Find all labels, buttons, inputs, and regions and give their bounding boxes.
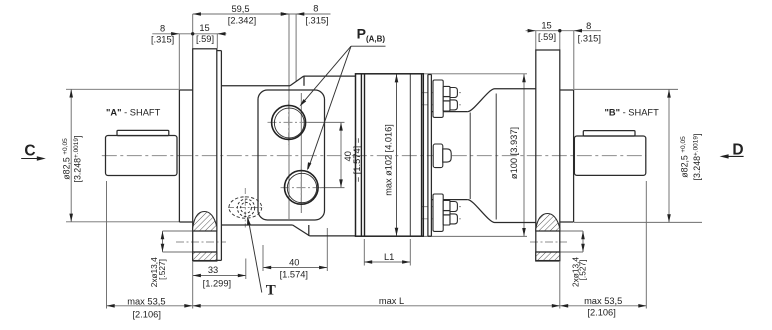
svg-text:[.59]: [.59] — [538, 32, 556, 42]
svg-text:15: 15 — [199, 23, 209, 33]
svg-text:T: T — [266, 283, 276, 299]
svg-text:max 53,5: max 53,5 — [127, 297, 165, 307]
svg-text:8: 8 — [586, 21, 591, 31]
svg-text:[2.106]: [2.106] — [587, 307, 615, 317]
svg-text:15: 15 — [541, 21, 551, 31]
svg-text:33: 33 — [208, 265, 218, 275]
svg-text:max L: max L — [379, 296, 404, 306]
svg-text:max ø102 [4.016]: max ø102 [4.016] — [383, 124, 393, 196]
svg-text:L1: L1 — [384, 252, 394, 262]
svg-text:ø100 [3.937]: ø100 [3.937] — [509, 127, 519, 179]
svg-text:[.315]: [.315] — [151, 34, 174, 44]
svg-text:max 53,5: max 53,5 — [584, 296, 622, 306]
svg-text:[.527]: [.527] — [577, 260, 587, 281]
svg-text:[.315]: [.315] — [305, 15, 328, 25]
svg-text:"B" - SHAFT: "B" - SHAFT — [605, 108, 660, 118]
svg-text:"A" - SHAFT: "A" - SHAFT — [106, 107, 161, 117]
svg-text:D: D — [732, 142, 743, 159]
svg-text:= [1.574] =: = [1.574] = — [352, 138, 362, 182]
svg-text:40: 40 — [289, 257, 299, 267]
svg-text:[2.342]: [2.342] — [228, 16, 256, 26]
svg-text:59,5: 59,5 — [231, 4, 249, 14]
svg-text:8: 8 — [313, 3, 318, 13]
svg-text:[.59]: [.59] — [196, 34, 214, 44]
svg-text:[1.299]: [1.299] — [203, 278, 231, 288]
svg-text:[2.106]: [2.106] — [132, 310, 160, 320]
svg-text:[1.574]: [1.574] — [280, 270, 308, 280]
svg-text:C: C — [24, 142, 35, 159]
svg-text:[.315]: [.315] — [578, 34, 601, 44]
svg-text:8: 8 — [160, 24, 165, 34]
svg-text:[.527]: [.527] — [157, 259, 167, 280]
